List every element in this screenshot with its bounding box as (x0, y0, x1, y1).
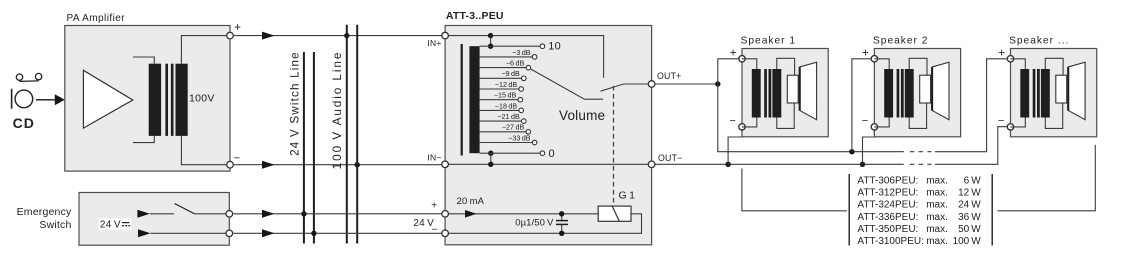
svg-text:−: − (234, 153, 241, 165)
volume wiper arm (531, 69, 603, 99)
svg-text:−6 dB: −6 dB (506, 59, 525, 68)
svg-text:ATT-336PEU:: ATT-336PEU: (857, 212, 918, 223)
label Speaker 2 (873, 35, 928, 46)
100V audio line wire B (356, 25, 358, 244)
tap −18 dB (480, 101, 524, 112)
speaker 1 transformer primary (752, 69, 761, 118)
wire OUT- to speaker3 - (935, 127, 1011, 165)
arrow CD to amplifier (36, 94, 65, 105)
svg-text:−3 dB: −3 dB (512, 48, 531, 57)
attenuator winding (469, 46, 479, 153)
speaker 2 transformer secondary (905, 69, 914, 118)
relay G1 coil (598, 206, 631, 221)
OUT+ terminal (648, 81, 655, 88)
svg-text:36 W: 36 W (958, 212, 981, 223)
wire switch to + terminal (195, 213, 230, 215)
svg-text:+: + (730, 48, 737, 60)
speaker 1 driver magnet (787, 75, 798, 103)
tap −3 dB (480, 48, 537, 59)
svg-text:24 V Switch Line: 24 V Switch Line (289, 51, 302, 156)
speaker 1 - terminal (729, 115, 745, 130)
wire primary top stub (133, 57, 154, 64)
OUT- bus continuation dashes (910, 163, 932, 165)
svg-text:IN+: IN+ (427, 38, 441, 48)
svg-text:0: 0 (549, 148, 555, 160)
svg-text:G 1: G 1 (619, 190, 636, 202)
volume switch arm to OUT+ (601, 84, 652, 91)
svg-text:−: − (998, 115, 1005, 127)
svg-text:Volume: Volume (559, 108, 605, 123)
wire secondary top to + terminal (181, 36, 230, 64)
table bracket wire left (742, 169, 847, 211)
tap 0 (off) (480, 148, 555, 160)
svg-text:24 V: 24 V (413, 218, 434, 229)
svg-text:Emergency: Emergency (17, 206, 72, 218)
svg-text:CD: CD (13, 115, 35, 131)
speaker 3 driver magnet (1056, 75, 1067, 103)
IN- terminal (442, 161, 449, 168)
svg-text:−15 dB: −15 dB (494, 91, 517, 100)
svg-text:max.: max. (926, 188, 948, 199)
label G 1 (619, 190, 636, 202)
ATT 24V+ terminal (431, 201, 448, 217)
100V audio line wire A (346, 25, 348, 244)
CD disc icon (12, 89, 33, 109)
svg-text:+: + (234, 22, 241, 34)
speaker 3 wire + to primary (1011, 59, 1026, 69)
speaker 2 wire secondary bottom to driver (909, 103, 926, 128)
speaker 1 wire secondary bottom to driver (777, 103, 794, 128)
svg-text:−18 dB: −18 dB (495, 101, 518, 110)
svg-text:ATT-350PEU:: ATT-350PEU: (857, 224, 918, 235)
emergency switch blade (open) (175, 204, 195, 214)
wire speaker1 - drop (728, 129, 742, 165)
wire secondary bottom to - terminal (181, 136, 230, 165)
speaker 3 transformer core (1033, 69, 1040, 118)
wire OUT+ underpass (718, 84, 904, 152)
svg-text:−33 dB: −33 dB (508, 133, 531, 142)
speaker 2 wire secondary top to driver (909, 58, 927, 75)
svg-text:+: + (431, 201, 437, 212)
speaker 1 box (742, 49, 828, 137)
power rating table (857, 176, 981, 248)
svg-text:24 V: 24 V (100, 219, 121, 230)
speaker 3 wire secondary bottom to driver (1045, 103, 1062, 128)
svg-text:max.: max. (926, 200, 948, 211)
label IN+ (427, 38, 441, 48)
ATT 24V- terminal (432, 225, 449, 237)
wire OUT+ to speaker3 + (935, 59, 1011, 152)
wire PA+ to IN+ (234, 32, 445, 40)
wire to speaker1 + (718, 59, 742, 84)
svg-text:Speaker 2: Speaker 2 (873, 35, 928, 46)
junction 0 tap (488, 151, 493, 168)
label PA Amplifier (67, 13, 126, 24)
speaker 2 wire - to primary (874, 118, 889, 127)
svg-text:50 W: 50 W (958, 224, 981, 235)
svg-text:max.: max. (926, 224, 948, 235)
svg-text:IN−: IN− (427, 153, 441, 163)
label 100V (189, 93, 215, 105)
svg-text:−: − (862, 115, 869, 127)
label IN- (427, 153, 441, 163)
speaker 1 wire - to primary (742, 118, 757, 127)
OUT- terminal (648, 161, 655, 168)
svg-text:6 W: 6 W (964, 176, 982, 187)
Emergency Switch box (79, 193, 229, 246)
wire 24V+ into switch (137, 210, 174, 218)
svg-text:24 W: 24 W (958, 200, 981, 211)
label 100V Audio Line (330, 51, 344, 170)
speaker 3 wire - to primary (1011, 118, 1026, 127)
svg-text:20 mA: 20 mA (457, 196, 485, 207)
tap 10 (0 dB) (480, 41, 561, 53)
svg-text:−: − (729, 115, 736, 127)
label Speaker 1 (741, 35, 796, 46)
svg-text:max.: max. (926, 176, 948, 187)
svg-text:100 W: 100 W (953, 236, 982, 247)
wire to speaker2 + (852, 59, 875, 152)
junction speaker1 + (715, 81, 720, 86)
junction speaker1 - (725, 162, 730, 167)
wire emergency- to ATT 24V- (233, 229, 445, 237)
speaker 2 transformer primary (884, 69, 893, 118)
svg-text:+: + (998, 48, 1005, 60)
junction speaker2 - (860, 162, 865, 167)
speaker 2 transformer core (897, 69, 904, 118)
attenuator core (461, 44, 463, 156)
label 0u1/50V (515, 218, 554, 229)
speaker 2 cone (932, 62, 949, 119)
svg-text:−9 dB: −9 dB (501, 69, 520, 78)
junction 24V- / switch line B (311, 231, 316, 236)
CD player source icon (tape reels) (16, 73, 42, 81)
tap −15 dB (480, 91, 523, 102)
speaker 3 cone (1068, 62, 1085, 119)
svg-text:−27 dB: −27 dB (502, 123, 525, 132)
op-amp amplifier triangle (83, 70, 132, 128)
tap −12 dB (480, 80, 524, 91)
PA + terminal (227, 22, 242, 39)
24V switch line wire A (303, 52, 305, 244)
tap −6 dB (480, 59, 531, 70)
speaker 1 transformer secondary (772, 69, 781, 118)
label Speaker ... (1009, 35, 1069, 46)
svg-text:Speaker 1: Speaker 1 (741, 35, 796, 46)
table bracket bar left (848, 174, 850, 246)
PA - terminal (227, 153, 241, 168)
svg-text:−21 dB: −21 dB (497, 112, 520, 121)
speaker 2 + terminal (862, 48, 878, 62)
table bracket bar right (991, 174, 993, 246)
label ATT-3..PEU (446, 10, 504, 22)
junction speaker2 + (849, 149, 854, 154)
mechanical link (dashed) volume-relay (613, 86, 615, 206)
capacitor C1 0u1/50V (556, 211, 568, 236)
label 24V Switch Line (289, 51, 302, 156)
svg-text:OUT+: OUT+ (657, 71, 682, 81)
attenuator ATT-3..PEU box (445, 26, 651, 245)
transformer T1 secondary winding (176, 64, 188, 136)
wire 24V- through box (138, 229, 229, 237)
svg-text:ATT-3..PEU: ATT-3..PEU (446, 10, 504, 22)
speaker 3 transformer primary (1020, 69, 1029, 118)
label 24V DC (99, 218, 132, 230)
speaker 2 box (874, 49, 960, 137)
wire primary bottom stub (133, 136, 154, 143)
tap −33 dB (480, 133, 537, 144)
speaker 3 + terminal (998, 48, 1014, 62)
label CD (13, 115, 35, 131)
label 24 V (ATT input) (413, 218, 434, 229)
svg-text:0µ1/50 V: 0µ1/50 V (515, 218, 554, 229)
svg-text:ATT-3100PEU:: ATT-3100PEU: (857, 236, 924, 247)
wire OUT+ bus (652, 83, 718, 85)
speaker 2 - terminal (862, 115, 878, 130)
label OUT- (658, 153, 683, 163)
svg-text:Switch: Switch (39, 219, 71, 231)
svg-text:ATT-306PEU:: ATT-306PEU: (857, 176, 918, 187)
svg-text:12 W: 12 W (958, 188, 981, 199)
junction 24V+ / switch line A (301, 211, 306, 216)
svg-text:−12 dB: −12 dB (495, 80, 518, 89)
speaker 2 driver magnet (920, 75, 931, 103)
speaker 3 transformer secondary (1041, 69, 1050, 118)
label Volume (559, 108, 605, 123)
wire IN+ across top to switch contact (445, 36, 603, 78)
table bracket wire right (998, 145, 1096, 211)
label 20 mA (457, 196, 485, 207)
emergency + terminal (226, 211, 233, 218)
label Emergency Switch (17, 206, 72, 231)
24V switch line wire B (313, 52, 315, 244)
wire PA- to IN- (234, 161, 445, 169)
tap −9 dB (480, 69, 526, 80)
emergency - terminal (226, 230, 233, 237)
wire emergency+ to ATT 24V+ (233, 210, 445, 218)
svg-text:ATT-312PEU:: ATT-312PEU: (857, 188, 918, 199)
speaker 2 wire + to primary (874, 59, 889, 69)
svg-text:Speaker ...: Speaker ... (1009, 35, 1069, 46)
junction IN+ tap (488, 33, 493, 49)
transformer T1 primary winding (149, 64, 161, 136)
svg-text:PA Amplifier: PA Amplifier (67, 13, 126, 24)
tap −21 dB (480, 112, 526, 123)
svg-text:ATT-324PEU:: ATT-324PEU: (857, 200, 918, 211)
svg-text:10: 10 (548, 41, 561, 53)
speaker 3 wire secondary top to driver (1045, 58, 1063, 75)
wire ATT 24V+ to relay coil (445, 210, 598, 218)
speaker 1 transformer core (764, 69, 771, 118)
IN+ terminal (442, 32, 449, 39)
PA Amplifier box (65, 26, 230, 172)
junction PA- / audio line (355, 162, 360, 167)
speaker 3 box (1011, 49, 1097, 137)
speaker 1 + terminal (730, 48, 746, 62)
wire relay return (445, 214, 641, 234)
junction PA+ / audio line (344, 33, 349, 38)
wire IN- across bottom to OUT- (445, 163, 651, 165)
wire speaker2 - drop (863, 129, 875, 165)
speaker 1 wire + to primary (742, 59, 757, 69)
speaker 3 - terminal (998, 115, 1014, 130)
OUT+ bus continuation dashes (910, 151, 932, 153)
svg-text:100 V Audio Line: 100 V Audio Line (330, 51, 344, 170)
wire OUT- bus (652, 163, 904, 165)
tap −27 dB (480, 123, 531, 134)
svg-text:max.: max. (926, 236, 948, 247)
label OUT+ (657, 71, 682, 81)
svg-text:100V: 100V (189, 93, 215, 105)
speaker 1 wire secondary top to driver (777, 58, 795, 75)
svg-text:+: + (862, 48, 869, 60)
speaker 1 cone (800, 62, 817, 119)
svg-text:max.: max. (926, 212, 948, 223)
transformer T1 core (165, 64, 173, 136)
svg-text:OUT−: OUT− (658, 153, 683, 163)
